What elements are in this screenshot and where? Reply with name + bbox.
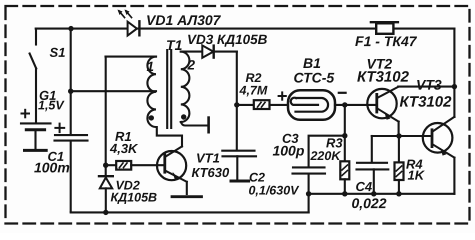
LED arrows of VD1 — [118, 10, 132, 18]
svg-text:C2: C2 — [249, 171, 265, 185]
wire down to C4 — [371, 136, 373, 162]
junction at R4 bus — [396, 191, 401, 196]
wire winding 2 bottom terminal — [181, 122, 208, 126]
headphone F1 — [371, 22, 398, 34]
phase dot winding 1 — [149, 115, 154, 120]
svg-text:1: 1 — [147, 59, 155, 74]
resistor R1 — [116, 161, 131, 170]
wire top supply rail left of F1 — [36, 28, 377, 30]
svg-text:VD3 КД105В: VD3 КД105В — [187, 32, 268, 47]
wire VT2 collector to right column — [398, 86, 454, 88]
wire VT3 emitter to bus — [453, 158, 455, 194]
diode VD1 (LED) — [128, 21, 140, 35]
resistor R2 — [254, 100, 270, 109]
wire winding 1 top link — [106, 56, 157, 58]
transistor VT1 — [157, 146, 187, 181]
capacitor C3 — [293, 167, 326, 173]
junction at C4 bus — [371, 191, 376, 196]
junction at tap node — [68, 89, 73, 94]
svg-text:КТ630: КТ630 — [191, 165, 230, 180]
wire emitter node to VT3 base — [372, 135, 432, 137]
wire R1 to VT1 base — [131, 164, 163, 166]
svg-text:100p: 100p — [272, 143, 304, 159]
plus sign of G1 — [22, 110, 30, 118]
wire R4 to bus — [398, 180, 400, 194]
svg-text:0,1/630V: 0,1/630V — [248, 184, 300, 198]
transformer T1 core — [167, 50, 171, 128]
capacitor C2 — [222, 151, 256, 180]
diode VD3 — [202, 45, 213, 57]
plus sign at B1 anode — [279, 92, 286, 99]
battery G1 — [21, 123, 51, 148]
junction at C3 bus — [306, 191, 311, 196]
plus sign of C1 — [55, 124, 64, 133]
wire R3 to bus — [344, 179, 346, 194]
wire bottom common rail — [71, 211, 309, 213]
svg-text:220K: 220K — [309, 149, 341, 163]
wire VT2 emitter down to node — [398, 122, 400, 136]
svg-text:0,022: 0,022 — [351, 195, 386, 211]
svg-text:VD1 АЛ307: VD1 АЛ307 — [146, 12, 222, 28]
phase dot winding 2 — [181, 114, 186, 119]
resistor R4 — [395, 162, 404, 180]
wire VD2 column — [105, 57, 107, 176]
svg-text:S1: S1 — [50, 45, 66, 60]
wire right column from rail to VT3 collector — [453, 29, 455, 117]
capacitor C1 — [55, 135, 88, 141]
wire B1 to VT2 base — [335, 104, 376, 106]
capacitor C4 — [357, 163, 389, 170]
junction at VD2 bottom rail — [103, 210, 108, 215]
wire tap from node to winding 1 center — [71, 90, 156, 92]
wire winding 1 bottom to VT1 collector — [157, 127, 182, 146]
wire node down to R4 — [398, 136, 400, 162]
chassis bar of C2 — [231, 180, 249, 183]
transistor VT2 — [367, 87, 398, 122]
svg-text:КТ3102: КТ3102 — [400, 94, 453, 111]
junction at R2 C2 node — [234, 102, 239, 107]
wire riser from rail to right bus — [308, 174, 310, 213]
junction at B1 cathode node — [342, 102, 347, 107]
wire node down to R3 — [344, 105, 346, 161]
svg-text:VT1: VT1 — [196, 150, 220, 165]
chassis bar of VT1 emitter — [172, 195, 202, 198]
transformer T1 winding 1 — [147, 57, 156, 127]
wire C1 column from top rail — [70, 29, 72, 135]
minus sign at B1 cathode — [339, 92, 346, 94]
wire R2 to tube B1 — [270, 104, 294, 106]
junction at VT2 VT3 collectors — [452, 84, 457, 89]
svg-text:1,5V: 1,5V — [38, 98, 65, 112]
svg-text:2: 2 — [187, 57, 196, 72]
junction at R3 bus — [342, 191, 347, 196]
wire winding 2 top to VD3 — [181, 51, 237, 53]
chassis bar of G1 negative — [25, 149, 47, 152]
wire top supply rail right of F1 — [393, 28, 454, 30]
chassis bar of winding 2 — [207, 118, 210, 133]
wire node to resistor R1 — [106, 164, 117, 166]
wire right common bus — [309, 193, 455, 195]
transformer T1 winding 2 — [181, 52, 190, 122]
junction at R3 C3 node — [342, 133, 347, 138]
junction at VT2 emitter VT3 base node — [396, 133, 401, 138]
svg-text:C4: C4 — [355, 179, 372, 194]
svg-text:1K: 1K — [407, 168, 425, 183]
junction at top rail and C1 column — [68, 26, 73, 31]
junction at VD2 R1 node — [103, 163, 108, 168]
svg-text:VT3: VT3 — [416, 77, 442, 93]
wire VT1 emitter down — [186, 182, 188, 194]
svg-text:T1: T1 — [166, 37, 183, 53]
wire VD2 to bottom rail — [105, 188, 107, 212]
svg-text:4,3K: 4,3K — [109, 141, 139, 156]
svg-text:100m: 100m — [34, 159, 70, 175]
resistor R3 — [340, 161, 349, 179]
svg-text:4,7M: 4,7M — [239, 84, 268, 98]
geiger tube B1 — [288, 90, 335, 120]
svg-text:F1 - ТК47: F1 - ТК47 — [355, 33, 418, 49]
svg-text:КТ3102: КТ3102 — [357, 69, 410, 86]
wire C4 to bus — [373, 169, 375, 193]
wire link to C3 — [309, 136, 345, 167]
wire node to resistor R2 — [237, 104, 254, 106]
svg-text:КД105В: КД105В — [110, 190, 157, 204]
wire C1 to bottom rail — [70, 141, 72, 212]
wire VD3 corner down to C2 — [236, 52, 238, 150]
svg-text:СТС-5: СТС-5 — [294, 70, 335, 86]
switch S1 — [30, 29, 37, 123]
transistor VT3 — [423, 117, 455, 158]
diode VD2 — [99, 176, 113, 188]
